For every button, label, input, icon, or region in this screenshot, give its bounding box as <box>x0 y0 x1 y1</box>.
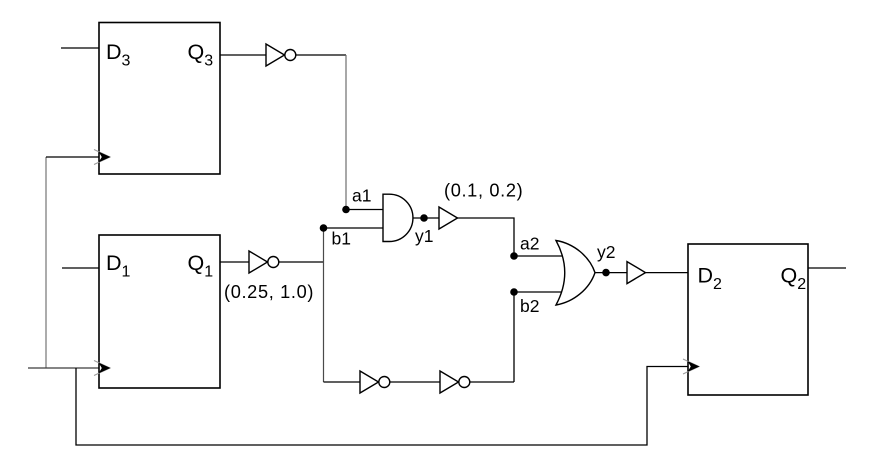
svg-text:y1: y1 <box>415 226 433 246</box>
svg-text:a1: a1 <box>352 186 371 206</box>
svg-text:b2: b2 <box>520 296 539 316</box>
svg-text:(0.25, 1.0): (0.25, 1.0) <box>224 282 314 302</box>
svg-text:a2: a2 <box>520 234 539 254</box>
svg-text:y2: y2 <box>597 242 615 262</box>
svg-text:(0.1, 0.2): (0.1, 0.2) <box>444 181 523 201</box>
svg-text:b1: b1 <box>332 229 351 249</box>
